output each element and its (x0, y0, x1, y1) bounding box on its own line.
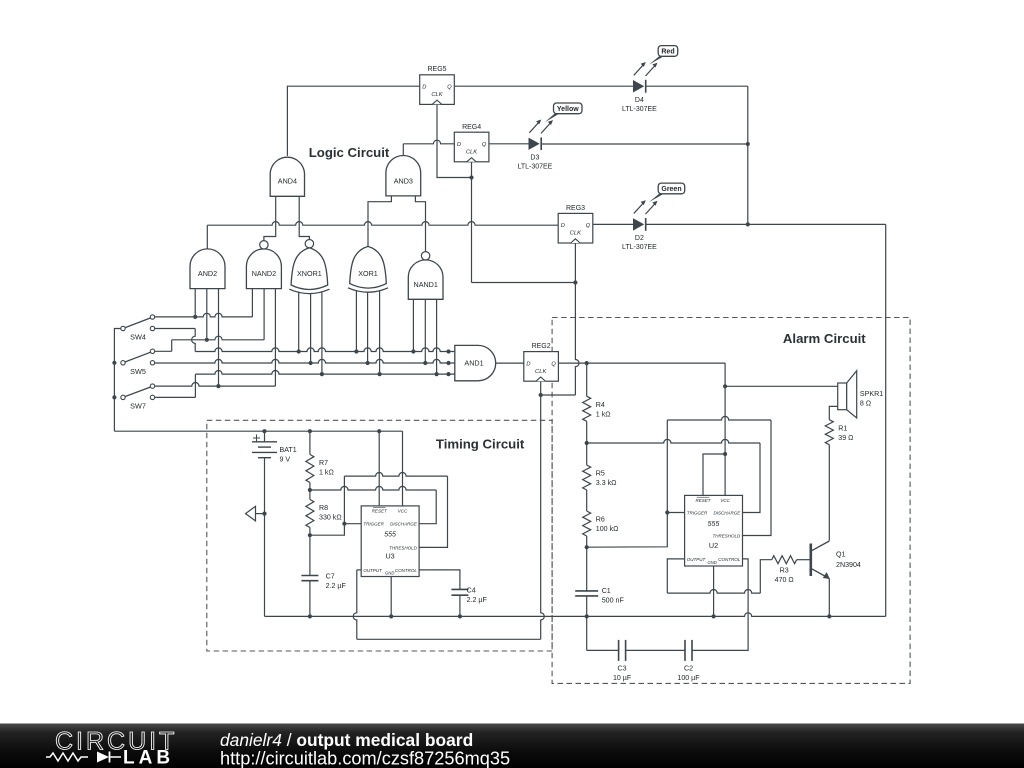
svg-text:LTL-307EE: LTL-307EE (622, 106, 657, 113)
svg-text:THRESHOLD: THRESHOLD (713, 533, 742, 538)
nand-gate NAND1 (408, 252, 443, 300)
svg-text:Q: Q (586, 223, 591, 229)
alarm circuit boundary box (552, 318, 910, 684)
capacitor C1 (575, 587, 624, 604)
wire XNOR1 input 3 (321, 292, 323, 375)
and-gate AND4 (270, 157, 304, 196)
wire R4 R5 R6 C1 chain (586, 363, 588, 616)
nand-gate NAND2 (246, 241, 281, 289)
resistor R5 (583, 465, 617, 490)
ic U2 555 timer (685, 495, 743, 566)
wire U2 RESET (703, 454, 725, 495)
wire AND1 output to REG2 D (496, 362, 524, 364)
svg-text:39 Ω: 39 Ω (838, 434, 853, 442)
svg-text:REG4: REG4 (462, 124, 481, 131)
svg-text:Yellow: Yellow (557, 106, 579, 113)
svg-text:SW4: SW4 (130, 333, 146, 342)
svg-text:Q: Q (447, 85, 452, 91)
wire alarm supply to SPKR1 (725, 385, 838, 387)
svg-text:C3: C3 (618, 664, 627, 672)
svg-text:danielr4 / output medical boar: danielr4 / output medical board (220, 730, 473, 750)
wire U2 GND (713, 566, 715, 616)
wire NAND1 input 2 (424, 299, 426, 363)
svg-text:10 µF: 10 µF (613, 674, 632, 682)
wire D2 cathode to alarm right rail (646, 224, 886, 616)
wire SW7 top row to NAND2 right (155, 289, 276, 387)
wire XOR1 input 2 (367, 293, 369, 364)
svg-text:2N3904: 2N3904 (836, 561, 861, 569)
svg-text:470 Ω: 470 Ω (775, 576, 794, 584)
wire BAT1 leads (264, 431, 266, 616)
speaker SPKR1 (838, 371, 884, 418)
svg-text:SW7: SW7 (130, 401, 146, 410)
wire R1 to Q1 collector (828, 445, 830, 541)
wire D4 cathode to right node (646, 86, 748, 224)
wire XOR1 input 3 (379, 291, 381, 375)
svg-text:NAND2: NAND2 (252, 269, 276, 278)
svg-text:100 kΩ: 100 kΩ (596, 525, 619, 533)
net flag (246, 506, 256, 521)
wire XNOR1 input 1 (298, 292, 300, 352)
wire U2 TRIGGER stub (667, 512, 684, 514)
wire U3 CONTROL to C4 (419, 570, 460, 617)
svg-text:REG2: REG2 (532, 343, 551, 350)
wire AND3 output to REG4 D (403, 140, 454, 155)
wire net flag stub (256, 513, 265, 515)
svg-text:3.3 kΩ: 3.3 kΩ (596, 479, 617, 487)
svg-text:C2: C2 (684, 664, 693, 672)
flip-flop REG5 (420, 66, 455, 104)
svg-text:CLK: CLK (535, 369, 547, 375)
svg-text:100 µF: 100 µF (677, 674, 700, 682)
svg-text:500 nF: 500 nF (602, 596, 625, 604)
wire REG4 Q to D3 (489, 143, 529, 145)
footer bar (0, 724, 1024, 768)
capacitor C3 (613, 640, 632, 682)
svg-text:REG5: REG5 (427, 66, 446, 73)
xor-gate XOR1 (348, 246, 388, 292)
svg-text:Alarm Circuit: Alarm Circuit (783, 331, 866, 346)
wire Q1 emitter to ground (828, 579, 830, 617)
svg-text:R5: R5 (596, 470, 605, 478)
wire U2 THRESHOLD loop (587, 416, 771, 547)
svg-text:R8: R8 (319, 504, 328, 512)
node row C (195, 371, 455, 375)
wire XNOR1 input 2 (310, 294, 312, 364)
svg-text:XOR1: XOR1 (358, 269, 378, 278)
timing circuit boundary box (207, 420, 552, 651)
wire REG4 CLK clock chain (472, 162, 576, 282)
resistor R4 (583, 396, 611, 421)
svg-text:Timing Circuit: Timing Circuit (436, 437, 525, 452)
led D3 (517, 120, 553, 171)
svg-text:LTL-307EE: LTL-307EE (622, 244, 657, 251)
flip-flop REG4 (454, 124, 489, 162)
svg-text:D3: D3 (530, 155, 539, 162)
ic U3 555 timer (361, 506, 419, 577)
wire SW4 bottom to row A (155, 329, 195, 352)
svg-text:CLK: CLK (570, 231, 582, 237)
svg-text:OUTPUT: OUTPUT (687, 557, 707, 562)
wire R7 R8 C7 chain (309, 431, 311, 616)
svg-text:330 kΩ: 330 kΩ (319, 514, 342, 522)
node row A (195, 348, 455, 352)
node row 2 (172, 289, 264, 340)
wire NAND1 input 1 (412, 299, 414, 351)
led D3 label Yellow (545, 103, 582, 122)
wire U2 VCC (724, 386, 726, 495)
wire REG5 Q to D4 (454, 85, 633, 87)
svg-text:1 kΩ: 1 kΩ (319, 469, 334, 477)
svg-text:Q1: Q1 (836, 551, 846, 559)
svg-text:GND: GND (385, 571, 394, 576)
circuitlab logo (46, 728, 177, 768)
svg-text:CLK: CLK (431, 92, 443, 98)
resistor R3 (772, 556, 797, 584)
wire SW7 bottom to row C (155, 374, 196, 397)
svg-text:R3: R3 (780, 567, 789, 575)
svg-text:R6: R6 (596, 516, 605, 524)
wire REG3 CLK clock chain (541, 243, 579, 395)
svg-text:R4: R4 (596, 401, 605, 409)
svg-text:CONTROL: CONTROL (718, 557, 740, 562)
wire AND3 input A from XOR1 (368, 196, 391, 247)
led D2 label Green (649, 183, 685, 202)
label Logic Circuit (309, 145, 390, 160)
switch SW5 (121, 349, 155, 376)
flip-flop REG3 (558, 205, 593, 243)
led D4 label Red (649, 46, 678, 65)
svg-text:DISCHARGE: DISCHARGE (390, 522, 418, 527)
wire REG2 CLK to U3 output (353, 381, 544, 639)
svg-text:Q: Q (551, 361, 556, 367)
wire R3 to Q1 base (797, 559, 810, 561)
svg-text:2.2 µF: 2.2 µF (467, 596, 488, 604)
svg-text:TRIGGER: TRIGGER (363, 522, 384, 527)
svg-text:U2: U2 (709, 541, 718, 550)
and-gate AND1 (455, 345, 496, 380)
xnor-gate XNOR1 (289, 240, 329, 294)
wire U2 CONTROL to C2 C3 (587, 559, 748, 651)
svg-text:U3: U3 (385, 551, 394, 560)
switch SW4 (121, 315, 155, 342)
svg-text:Logic Circuit: Logic Circuit (309, 145, 390, 160)
svg-text:THRESHOLD: THRESHOLD (389, 545, 418, 550)
wire AND4 input A from NAND2 (264, 196, 276, 240)
svg-text:1 kΩ: 1 kΩ (596, 410, 611, 418)
svg-text:D: D (422, 85, 426, 91)
svg-text:D: D (561, 223, 565, 229)
label Timing Circuit (436, 437, 525, 452)
svg-text:R7: R7 (319, 459, 328, 467)
led D4 (622, 62, 658, 113)
svg-text:8 Ω: 8 Ω (860, 400, 871, 408)
capacitor C7 (301, 573, 346, 590)
label Alarm Circuit (783, 331, 866, 346)
svg-text:XNOR1: XNOR1 (297, 269, 322, 278)
wire NAND1 input 3 (436, 299, 438, 374)
svg-text:BAT1: BAT1 (280, 446, 297, 454)
svg-text:RESET: RESET (695, 498, 711, 503)
node row B from SW5 bottom (155, 359, 455, 363)
svg-text:D4: D4 (635, 97, 644, 104)
svg-text:OUTPUT: OUTPUT (363, 568, 383, 573)
svg-text:Green: Green (661, 186, 681, 193)
node ground rail (265, 613, 886, 617)
svg-text:D: D (526, 361, 530, 367)
svg-text:AND3: AND3 (394, 177, 413, 186)
svg-text:CONTROL: CONTROL (395, 568, 417, 573)
svg-text:REG3: REG3 (566, 205, 585, 212)
svg-text:Q: Q (482, 142, 487, 148)
led D2 (622, 200, 658, 251)
wire AND4 input B from XNOR1 (299, 196, 309, 239)
battery BAT1 (252, 435, 297, 464)
svg-text:C4: C4 (467, 587, 476, 595)
svg-text:D2: D2 (635, 235, 644, 242)
wire D3 cathode to right node (541, 143, 748, 145)
wire AND2 input 1 (194, 289, 196, 317)
wire U3 GND (390, 577, 392, 617)
svg-text:R1: R1 (838, 424, 847, 432)
svg-text:Red: Red (661, 48, 674, 55)
and-gate AND2 (190, 249, 225, 289)
wire REG2 Q to R4 and alarm feed (558, 363, 725, 386)
svg-text:http://circuitlab.com/czsf8725: http://circuitlab.com/czsf87256mq35 (220, 749, 510, 768)
wire U2 DISCHARGE loop (587, 439, 760, 512)
svg-text:D: D (457, 142, 461, 148)
svg-text:GND: GND (707, 560, 716, 565)
wire U2 OUTPUT to R3 (667, 559, 771, 593)
flip-flop REG2 (524, 343, 559, 381)
svg-text:NAND1: NAND1 (414, 280, 438, 289)
svg-text:LTL-307EE: LTL-307EE (517, 164, 552, 171)
capacitor C2 (677, 640, 700, 682)
svg-text:RESET: RESET (372, 509, 388, 514)
svg-text:555: 555 (384, 531, 396, 538)
resistor R1 (825, 420, 853, 445)
wire AND2 output bus to REG3 D (207, 222, 558, 249)
footer url text (220, 749, 510, 768)
wire XOR1 input 1 (355, 291, 357, 352)
svg-text:SW5: SW5 (130, 367, 146, 376)
wire AND3 input B from NAND1 (415, 196, 425, 252)
resistor R6 (583, 511, 619, 536)
wire U3 DISCHARGE loop (310, 486, 436, 523)
svg-text:VCC: VCC (398, 509, 408, 514)
svg-text:AND4: AND4 (278, 177, 297, 186)
svg-text:555: 555 (708, 521, 720, 528)
footer title text (220, 730, 473, 750)
wire SW4 top row to AND2/NAND2 left (155, 289, 253, 317)
svg-text:SPKR1: SPKR1 (860, 390, 883, 398)
wire supply rail from switches (114, 329, 402, 506)
wire U3 RESET (378, 431, 380, 506)
svg-text:9 V: 9 V (280, 455, 291, 463)
capacitor C4 (451, 587, 487, 604)
wire SW5 top to row 2 (155, 340, 172, 352)
svg-text:TRIGGER: TRIGGER (687, 510, 708, 515)
svg-text:LAB: LAB (123, 748, 174, 768)
and-gate AND3 (386, 155, 421, 195)
wire AND2 input 3 (218, 289, 220, 387)
svg-text:AND2: AND2 (198, 269, 217, 278)
wire REG3 Q to D2 (593, 223, 633, 225)
resistor R7 (306, 454, 334, 482)
wire SPKR1 bottom to R1 (829, 406, 837, 419)
resistor R8 (306, 499, 342, 527)
wire U3 TRIGGER stub (344, 523, 361, 525)
svg-text:DISCHARGE: DISCHARGE (714, 510, 742, 515)
wire U3 THRESHOLD loop (310, 473, 448, 548)
wire AND4 output to REG5 D (287, 86, 419, 156)
svg-text:AND1: AND1 (464, 359, 483, 368)
wire REG5 CLK to clock net (437, 104, 472, 178)
svg-text:VCC: VCC (720, 498, 730, 503)
svg-text:2.2 µF: 2.2 µF (326, 582, 347, 590)
svg-text:C7: C7 (326, 573, 335, 581)
svg-text:C1: C1 (602, 587, 611, 595)
wire AND2 input 2 (206, 289, 208, 340)
switch SW7 (121, 384, 155, 411)
svg-text:CLK: CLK (466, 150, 478, 156)
transistor Q1 (811, 541, 861, 579)
